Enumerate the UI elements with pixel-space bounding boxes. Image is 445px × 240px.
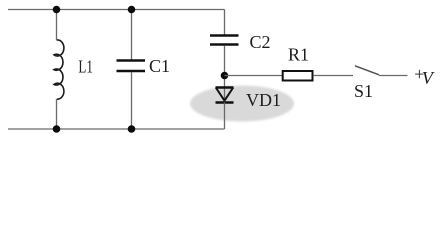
highlight ellipse around VD1 — [190, 86, 294, 122]
wire switch to +V — [379, 75, 408, 77]
svg-text:S1: S1 — [354, 81, 373, 101]
diode VD1 — [216, 88, 282, 111]
capacitor C1 — [117, 56, 171, 76]
inductor L1 — [54, 40, 93, 99]
node dot C1 top — [128, 6, 136, 14]
wire node to R1 — [225, 75, 283, 77]
node dot C1 bottom — [128, 125, 136, 133]
wire R1 to switch — [313, 75, 353, 77]
node junction dot at detector tap — [221, 72, 229, 80]
switch S1 — [354, 66, 379, 101]
wire bottom rail — [8, 128, 225, 130]
wire diode bottom to corner — [224, 103, 226, 130]
svg-text:C2: C2 — [250, 32, 271, 52]
svg-text:R1: R1 — [288, 45, 309, 65]
svg-text:C1: C1 — [149, 56, 170, 76]
wire C1 top stub — [131, 10, 133, 60]
wire C2 to node — [224, 46, 226, 103]
wire inductor bottom stub — [56, 99, 58, 129]
resistor R1 — [283, 45, 313, 81]
wire C2 top stub — [224, 10, 226, 36]
svg-text:VD1: VD1 — [246, 90, 281, 110]
wire C1 bottom stub — [131, 72, 133, 129]
svg-text:L1: L1 — [78, 57, 93, 77]
wire top rail — [8, 9, 225, 11]
node dot L1 bottom — [53, 125, 61, 133]
node dot L1 top — [53, 6, 61, 14]
capacitor C2 — [210, 32, 271, 52]
wire inductor top stub — [56, 10, 58, 41]
